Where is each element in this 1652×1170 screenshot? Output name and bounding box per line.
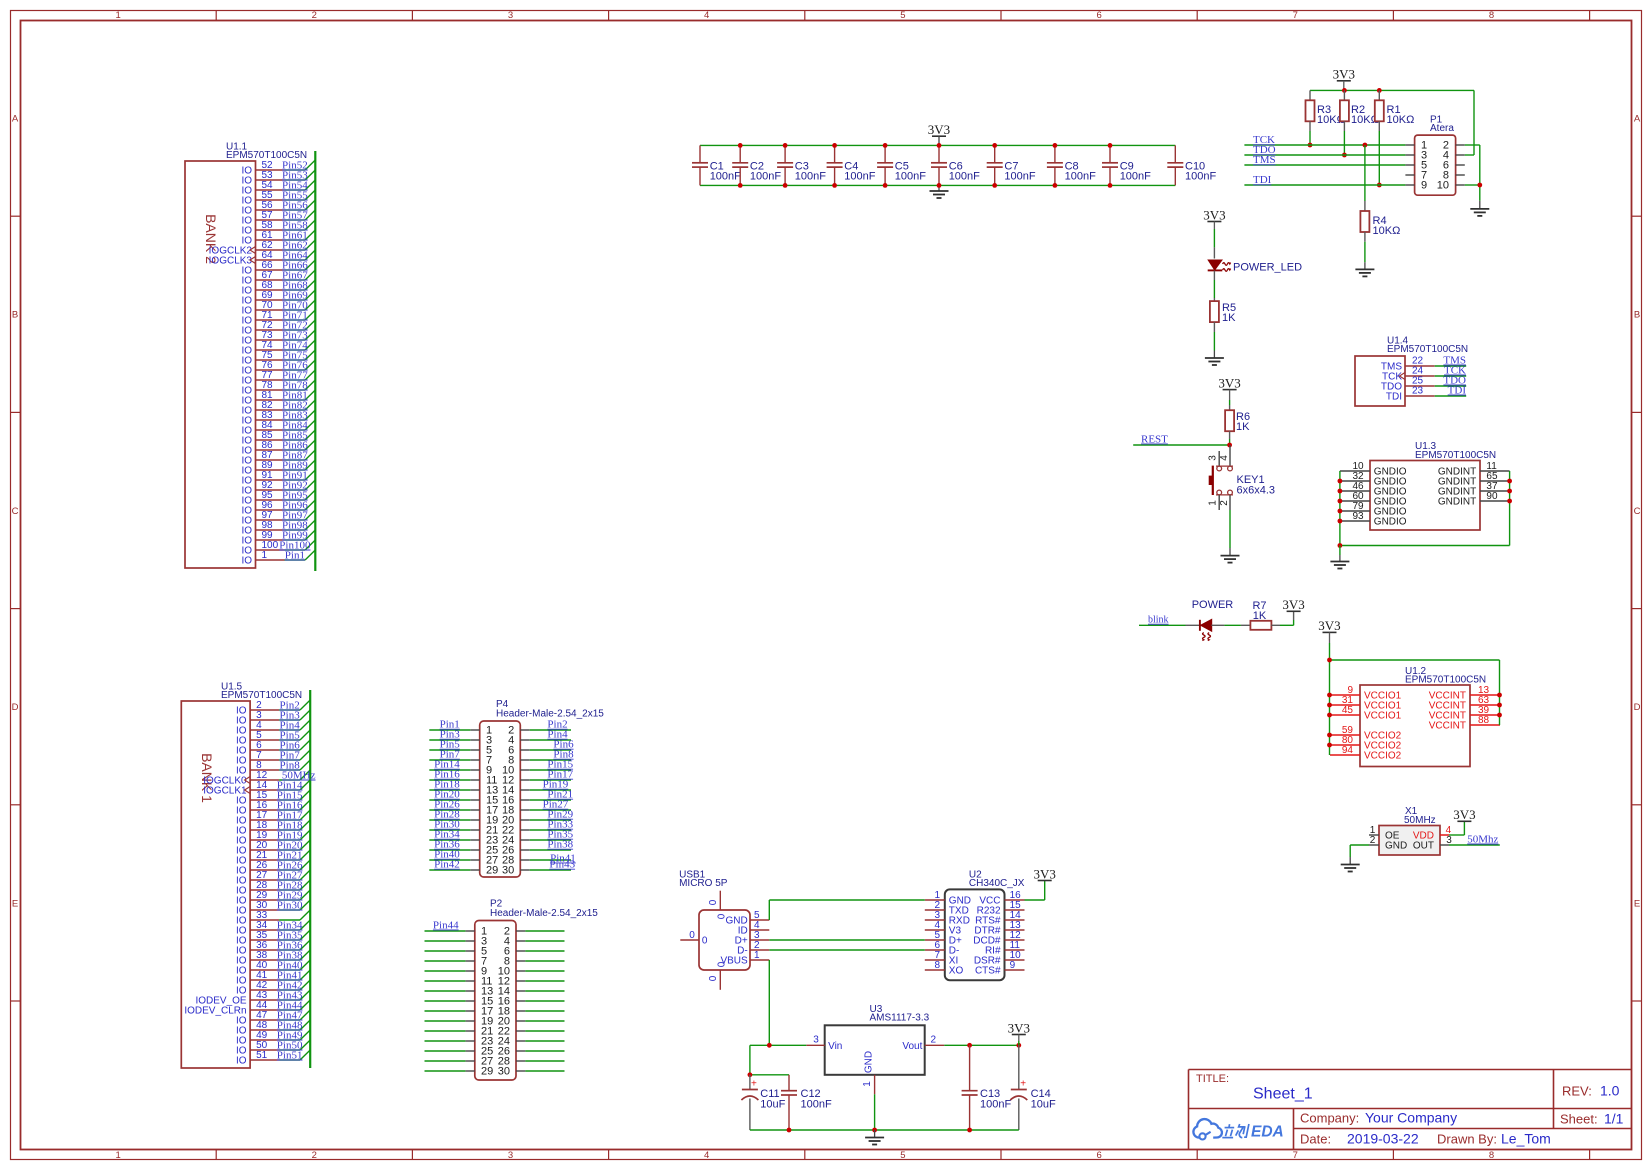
P2 pin 24 wire (525, 1040, 564, 1042)
U2 pin 3 RXD (925, 910, 970, 927)
svg-text:C: C (1634, 506, 1641, 517)
svg-text:51: 51 (256, 1050, 268, 1061)
U1.5 pin 5 (IO) wire, net Pin5 (236, 729, 310, 746)
junction U1.2 pin 13 (1497, 693, 1502, 698)
junction U1.3 pin 46 (1338, 489, 1343, 494)
svg-text:GNDINT: GNDINT (1438, 497, 1476, 508)
U2 pin 2 TXD (925, 900, 969, 917)
wire bottom gnd rail (750, 1129, 1019, 1131)
IC U3 AMS1117-3.3 (806, 1004, 944, 1094)
svg-text:100nF: 100nF (1065, 171, 1096, 183)
P2 pin 22 wire (525, 1030, 564, 1032)
U1.1 pin 87 (IO) wire, net Pin87 (241, 449, 315, 466)
U1.3 pin 37 GNDINT (1438, 481, 1510, 498)
P4 pin 7 wire, net Pin7 (429, 749, 470, 761)
svg-text:2: 2 (312, 1150, 317, 1161)
wire Vin net (750, 1045, 806, 1075)
svg-text:2: 2 (1370, 835, 1376, 846)
P4 pin 17 wire, net Pin26 (429, 799, 470, 811)
P4 pin 20 wire, net Pin29 (530, 809, 574, 821)
P2 pin 16 wire (525, 1000, 564, 1002)
svg-text:0: 0 (717, 961, 728, 967)
svg-text:CTS#: CTS# (975, 966, 1001, 977)
connector P4 Header-Male-2.54_2x15 (470, 699, 604, 877)
U1.5 pin 35 (IO) wire, net Pin35 (236, 929, 310, 946)
U1.5 pin 19 (IO) wire, net Pin19 (236, 829, 310, 846)
P4 pin 12 wire, net Pin17 (530, 769, 574, 781)
junction VBUS/Vin (767, 1043, 772, 1048)
junction C4 top (832, 143, 837, 148)
junction C3 top (783, 143, 788, 148)
wire USB1 D+ to U2 D+ (769, 939, 925, 941)
resistor R2 10KΩ (1340, 90, 1379, 155)
svg-text:1K: 1K (1253, 610, 1267, 622)
svg-text:TDI: TDI (1386, 392, 1402, 403)
U1.1 pin 55 (IO) wire, net Pin55 (241, 189, 315, 206)
resistor R3 10KΩ (1306, 90, 1345, 145)
bus for U1.1 (314, 151, 316, 571)
svg-text:0: 0 (717, 913, 728, 919)
LED POWER_LED (1208, 247, 1302, 280)
ground (P1) (1470, 201, 1489, 216)
U1.3 pin 32 GNDIO (1340, 471, 1407, 488)
svg-text:100nF: 100nF (980, 1099, 1011, 1111)
U1.5 pin 16 (IO) wire, net Pin16 (236, 799, 310, 816)
wire LED to R5 (1213, 280, 1215, 298)
title block (1189, 1070, 1632, 1150)
junction U1.3 pin 32 (1338, 479, 1343, 484)
svg-text:XO: XO (949, 966, 964, 977)
U1.2 pin 45 VCCIO1 (1330, 705, 1402, 722)
P4 pin 13 wire, net Pin18 (429, 779, 470, 791)
svg-text:3: 3 (508, 1150, 513, 1161)
svg-text:94: 94 (1342, 745, 1354, 756)
power flag 3V3 (U2) (1034, 866, 1056, 881)
capacitor C6 100nF (931, 145, 980, 185)
P2 pin 9 wire (425, 970, 466, 972)
capacitor C7 100nF (987, 145, 1036, 185)
svg-text:4: 4 (704, 10, 709, 21)
svg-text:D: D (1634, 702, 1641, 713)
P2 pin 12 wire (525, 980, 564, 982)
P2 pin 13 wire (425, 990, 466, 992)
svg-text:100nF: 100nF (750, 171, 781, 183)
svg-text:2: 2 (931, 1035, 937, 1046)
wire U1.2 3V3 top link (1330, 659, 1500, 661)
junction U1.2 pin 63 (1497, 703, 1502, 708)
U1.3 pin 46 GNDIO (1340, 481, 1407, 498)
P4 pin 5 wire, net Pin5 (429, 739, 470, 751)
U1.1 pin 91 (IO) wire, net Pin91 (241, 469, 315, 486)
U1.1 pin 92 (IO) wire, net Pin92 (241, 479, 315, 496)
pushbutton KEY1 6x6x4.3 (1208, 445, 1275, 510)
junction C8 top (1053, 143, 1058, 148)
svg-text:+: + (751, 1079, 757, 1090)
svg-text:3: 3 (508, 10, 513, 21)
U1.5 pin 12 (IOGCLK0) wire, net 50MHz (203, 769, 315, 786)
net label Pin43 (P4 pin 30) (549, 859, 575, 871)
wire/net TMS to P1 (1244, 154, 1405, 166)
svg-text:OUT: OUT (1413, 841, 1434, 852)
svg-text:Vin: Vin (828, 1041, 842, 1052)
U1.1 pin 52 (IO) wire, net Pin52 (241, 159, 315, 176)
capacitor C1 100nF (692, 145, 741, 185)
svg-text:Sheet_1: Sheet_1 (1253, 1086, 1313, 1103)
U1.1 pin 78 (IO) wire, net Pin78 (241, 379, 315, 396)
U1.1 pin 96 (IO) wire, net Pin96 (241, 499, 315, 516)
P4 pin 30 wire (530, 869, 571, 871)
P4 pin 29 wire, net Pin42 (429, 859, 470, 871)
svg-text:3V3: 3V3 (1218, 375, 1240, 390)
svg-text:AMS1117-3.3: AMS1117-3.3 (870, 1013, 930, 1024)
P4 pin 25 wire, net Pin36 (429, 839, 470, 851)
svg-text:0: 0 (702, 936, 708, 947)
svg-text:3V3: 3V3 (1008, 1020, 1030, 1035)
svg-text:E: E (12, 898, 18, 909)
U1.1 pin 74 (IO) wire, net Pin74 (241, 339, 315, 356)
svg-text:POWER_LED: POWER_LED (1233, 261, 1302, 273)
P2 pin 26 wire (525, 1050, 564, 1052)
U1.1 pin 89 (IO) wire, net Pin89 (241, 459, 315, 476)
ground (KEY1) (1221, 548, 1240, 563)
ground (R5) (1205, 351, 1224, 366)
power flag 3V3 (R7) (1282, 597, 1304, 612)
U1.4 pin 24 (TCK) wire, net TCK (1382, 364, 1466, 382)
svg-text:7: 7 (1293, 10, 1298, 21)
svg-text:100nF: 100nF (1120, 171, 1151, 183)
U1.3 pin 93 GNDIO (1340, 511, 1407, 528)
wire: GND bottom rail for C1-C10 (700, 184, 1175, 186)
wire USB1 GND to U2 GND (769, 900, 925, 920)
P2 pin 23 wire (425, 1040, 466, 1042)
wire X1 GND (1350, 845, 1369, 857)
svg-text:E: E (1634, 898, 1640, 909)
junction U1.2 pin 9 (1327, 693, 1332, 698)
U1.2 pin 39 VCCINT (1429, 705, 1500, 722)
svg-text:REV:: REV: (1562, 1084, 1592, 1099)
svg-text:Drawn By:: Drawn By: (1437, 1132, 1497, 1147)
U1.5 pin 50 (IO) wire, net Pin50 (236, 1039, 310, 1056)
U1.2 pin 31 VCCIO1 (1330, 695, 1402, 712)
U1.1 pin 76 (IO) wire, net Pin76 (241, 359, 315, 376)
svg-text:10uF: 10uF (1031, 1099, 1056, 1111)
P2 pin 15 wire (425, 1000, 466, 1002)
wire U1.3 bottom gnd link (1340, 545, 1510, 547)
U1.5 pin 6 (IO) wire, net Pin6 (236, 739, 310, 756)
U1.1 pin 73 (IO) wire, net Pin73 (241, 329, 315, 346)
capacitor C2 100nF (732, 145, 781, 185)
P2 pin 20 wire (525, 1020, 564, 1022)
svg-text:5: 5 (900, 10, 905, 21)
U1.1 pin 69 (IO) wire, net Pin69 (241, 289, 315, 306)
U1.5 pin 8 (IO) wire, net Pin8 (236, 759, 310, 776)
junction U1.2 pin 80 (1327, 743, 1332, 748)
U1.3 pin 60 GNDIO (1340, 491, 1407, 508)
svg-text:1: 1 (862, 1081, 873, 1087)
ground (X1) (1341, 857, 1360, 872)
svg-text:29: 29 (481, 1066, 493, 1078)
U1.5 pin 30 (IO) wire, net Pin30 (236, 899, 310, 916)
U1.5 pin 17 (IO) wire, net Pin17 (236, 809, 310, 826)
svg-text:8: 8 (1489, 1150, 1494, 1161)
U1.4 pin 23 (TDI) wire, net TDI (1386, 384, 1466, 402)
svg-text:100nF: 100nF (1185, 171, 1216, 183)
connector P1 Atera (JTAG header) (1405, 115, 1464, 196)
power flag 3V3 (JTAG pull-ups) (1333, 67, 1355, 91)
U1.1 pin 70 (IO) wire, net Pin70 (241, 299, 315, 316)
P2 pin 14 wire (525, 990, 564, 992)
junction R1 bottom (1377, 183, 1382, 188)
LED POWER (blink) (1186, 599, 1234, 641)
ground (U1.3) (1330, 546, 1349, 569)
U1.5 pin 40 (IO) wire, net Pin40 (236, 959, 310, 976)
svg-text:EPM570T100C5N: EPM570T100C5N (1405, 675, 1486, 686)
U2 pin 14 RTS# (975, 910, 1024, 927)
U1.5 pin 27 (IO) wire, net Pin27 (236, 869, 310, 886)
svg-text:GND: GND (1385, 841, 1407, 852)
svg-text:0: 0 (708, 975, 719, 981)
svg-text:6: 6 (1096, 10, 1101, 21)
U1.5 pin 43 (IODEV_OE) wire, net Pin43 (195, 989, 310, 1006)
U1.5 pin 26 (IO) wire, net Pin26 (236, 859, 310, 876)
wire/net TDO to P1 (1244, 144, 1405, 156)
svg-text:3: 3 (813, 1035, 819, 1046)
ground (R4) (1355, 262, 1374, 276)
svg-text:POWER: POWER (1192, 599, 1234, 611)
wire P1 pin4 from 3V3 (1465, 154, 1474, 156)
junction C7 bottom (992, 183, 997, 188)
U1.5 pin 44 (IODEV_CLRn) wire, net Pin44 (184, 999, 310, 1016)
svg-text:C: C (12, 506, 19, 517)
junction R1 top (1377, 88, 1382, 93)
svg-text:100nF: 100nF (710, 171, 741, 183)
U1.2 pin 59 VCCIO2 (1330, 725, 1402, 742)
svg-text:GNDIO: GNDIO (1374, 517, 1407, 528)
U2 pin 9 CTS# (975, 960, 1025, 977)
IC U2 CH340C_JX (945, 870, 1025, 981)
junction R2 bottom (1342, 153, 1347, 158)
junction C14/3V3 top (1016, 1043, 1021, 1048)
P4 pin 2 wire, net Pin2 (530, 719, 571, 731)
resistor R1 10KΩ (1375, 90, 1414, 185)
svg-text:100nF: 100nF (801, 1099, 832, 1111)
junction REST/KEY1 (1227, 443, 1232, 448)
junction P1 pin10 (1477, 183, 1482, 188)
svg-text:2019-03-22: 2019-03-22 (1347, 1131, 1419, 1147)
junction C6 bottom (937, 183, 942, 188)
ground (U3) (865, 1130, 884, 1145)
resistor R6 1K (1225, 400, 1250, 445)
P4 pin 4 wire, net Pin4 (530, 729, 571, 741)
junction C9 bottom (1108, 183, 1113, 188)
U1.4 pin 25 (TDO) wire, net TDO (1381, 374, 1466, 392)
U1.1 pin 99 (IO) wire, net Pin99 (241, 529, 315, 546)
svg-text:3V3: 3V3 (1034, 866, 1056, 881)
net label Pin44 (P2 pin 1) (433, 919, 459, 931)
U1.5 pin 20 (IO) wire, net Pin20 (236, 839, 310, 856)
U1.1 pin 81 (IO) wire, net Pin81 (241, 389, 315, 406)
U2 pin 15 R232 (977, 900, 1025, 917)
svg-text:Atera: Atera (1430, 123, 1454, 134)
P2 pin 28 wire (525, 1060, 564, 1062)
U1.1 pin 1 (IO) wire, net Pin1 (241, 549, 315, 566)
junction U3 GND bottom (872, 1128, 877, 1133)
junction U1.2 pin 31 (1327, 703, 1332, 708)
U1.1 pin 72 (IO) wire, net Pin72 (241, 319, 315, 336)
svg-text:5: 5 (900, 1150, 905, 1161)
U1.1 pin 83 (IO) wire, net Pin83 (241, 409, 315, 426)
svg-text:9: 9 (1010, 960, 1016, 971)
svg-text:VCCIO2: VCCIO2 (1364, 751, 1402, 762)
U1.1 pin 64 (IOGCLK3) wire, net Pin64 (209, 249, 316, 266)
P2 pin 3 wire (425, 940, 466, 942)
junction C8 bottom (1053, 183, 1058, 188)
wire U3 GND (874, 1094, 876, 1130)
svg-text:3V3: 3V3 (928, 122, 950, 137)
svg-text:4: 4 (704, 1150, 709, 1161)
svg-text:3V3: 3V3 (1453, 807, 1475, 822)
wire U2 VCC to 3V3 (1025, 881, 1045, 901)
svg-text:EDA: EDA (1251, 1123, 1284, 1140)
resistor R7 1K (1241, 600, 1280, 630)
P4 pin 19 wire, net Pin28 (429, 809, 470, 821)
U1.5 pin 49 (IO) wire, net Pin49 (236, 1029, 310, 1046)
U2 pin 6 D- (925, 940, 960, 957)
wire: 3V3 top rail for C1-C10 (700, 144, 1175, 146)
svg-text:90: 90 (1486, 491, 1498, 502)
U1.2 pin 13 VCCINT (1429, 685, 1500, 702)
junction C6 top (937, 143, 942, 148)
U1.1 pin 57 (IO) wire, net Pin57 (241, 209, 315, 226)
wire 3V3 to LED (1213, 229, 1215, 247)
IC U1.5 EPM570T100C5N (BANK 1) (181, 682, 302, 1069)
svg-text:EPM570T100C5N: EPM570T100C5N (1415, 450, 1496, 461)
wire USB1 D- to U2 D- (769, 949, 925, 951)
IC U1.3 EPM570T100C5N (GND pins) (1370, 441, 1496, 530)
P4 pin 23 wire, net Pin34 (429, 829, 470, 841)
svg-text:1: 1 (1208, 500, 1219, 506)
P4 pin 27 wire, net Pin40 (429, 849, 470, 861)
svg-text:A: A (12, 114, 19, 125)
svg-text:IO: IO (236, 1055, 247, 1066)
junction R4/TCK (1363, 143, 1368, 148)
svg-text:6: 6 (1096, 1150, 1101, 1161)
wire P1 pin2 to ground rail (1465, 145, 1480, 201)
svg-text:8: 8 (934, 960, 940, 971)
capacitor C3 100nF (777, 145, 826, 185)
P4 pin 24 wire, net Pin35 (530, 829, 574, 841)
capacitor C5 100nF (877, 145, 926, 185)
junction U1.3 pin 79 (1338, 509, 1343, 514)
svg-text:1: 1 (115, 10, 120, 21)
junction C5 bottom (883, 183, 888, 188)
svg-text:2: 2 (1219, 500, 1230, 506)
U1.4 pin 22 (TMS) wire, net TMS (1381, 354, 1466, 372)
svg-text:3: 3 (1446, 835, 1452, 846)
U1.5 pin 3 (IO) wire, net Pin3 (236, 709, 310, 726)
svg-text:VCCIO1: VCCIO1 (1364, 711, 1402, 722)
capacitor C9 100nF (1102, 145, 1151, 185)
P4 pin 28 wire (530, 859, 571, 861)
svg-text:Le_Tom: Le_Tom (1501, 1131, 1551, 1147)
svg-text:6x6x4.3: 6x6x4.3 (1237, 485, 1276, 497)
wire/net REST (1133, 433, 1229, 445)
logo LCEDA (1193, 1119, 1283, 1140)
capacitor C11 10uF (741, 1075, 785, 1130)
capacitor C8 100nF (1047, 145, 1096, 185)
U1.3 pin 65 GNDINT (1438, 471, 1510, 488)
junction C5 top (883, 143, 888, 148)
U1.5 pin 34 (IO) wire, net Pin34 (236, 919, 310, 936)
svg-text:GND: GND (864, 1051, 875, 1073)
svg-text:B: B (12, 310, 18, 321)
U1.2 pin 88 VCCINT (1429, 715, 1500, 732)
junction C11 top (748, 1072, 753, 1077)
P4 pin 8 wire, net Pin8 (530, 749, 574, 761)
bus for U1.5 (309, 690, 311, 1068)
junction C3 bottom (783, 183, 788, 188)
wire/net TCK to P1 (1244, 134, 1405, 146)
P4 pin 10 wire, net Pin15 (530, 759, 574, 771)
U2 pin 8 XO (925, 960, 964, 977)
capacitor C4 100nF (827, 145, 876, 185)
U1.5 pin 33 (IO) wire (236, 910, 310, 927)
P2 pin 25 wire (425, 1050, 466, 1052)
svg-text:3V3: 3V3 (1203, 207, 1225, 222)
resistor R5 1K (1210, 298, 1236, 332)
svg-text:1: 1 (115, 1150, 120, 1161)
P2 pin 1 wire (425, 930, 466, 932)
junction U1.2 pin 39 (1497, 713, 1502, 718)
P4 pin 11 wire, net Pin16 (429, 769, 470, 781)
U1.1 pin 75 (IO) wire, net Pin75 (241, 349, 315, 366)
svg-text:23: 23 (1412, 386, 1424, 397)
junction U1.2 pin 59 (1327, 733, 1332, 738)
svg-text:0: 0 (708, 899, 719, 905)
P2 pin 5 wire (425, 950, 466, 952)
junction C2 top (738, 143, 743, 148)
P4 pin 22 wire, net Pin33 (530, 819, 574, 831)
power flag 3V3 (U1.2) (1318, 618, 1340, 660)
junction U1.3 pin 93 (1338, 519, 1343, 524)
svg-text:3V3: 3V3 (1282, 597, 1304, 612)
svg-text:1.0: 1.0 (1600, 1083, 1620, 1099)
U1.5 pin 7 (IO) wire, net Pin7 (236, 749, 310, 766)
P4 pin 18 wire, net Pin27 (530, 799, 571, 811)
svg-text:Company:: Company: (1300, 1111, 1359, 1126)
P4 pin 14 wire, net Pin19 (530, 779, 571, 791)
junction U1.2 pin 45 (1327, 713, 1332, 718)
wire U1.2 right vcc bus (1499, 660, 1501, 725)
U1.5 pin 28 (IO) wire, net Pin28 (236, 879, 310, 896)
junction C13 top (967, 1043, 972, 1048)
ground (decoupling rail) (930, 185, 949, 198)
U1.1 pin 54 (IO) wire, net Pin54 (241, 179, 315, 196)
svg-text:Vout: Vout (902, 1041, 922, 1052)
wire/net TDI to P1 (1244, 174, 1405, 186)
junction C4 bottom (832, 183, 837, 188)
svg-text:88: 88 (1478, 715, 1490, 726)
U2 pin 4 V3 (925, 920, 962, 937)
wire: 3V3 rail to R3 R2 R1 and P1 (1310, 90, 1474, 155)
capacitor C12 100nF (781, 1075, 832, 1130)
junction U1.3 pin 37 (1507, 489, 1512, 494)
svg-text:Header-Male-2.54_2x15: Header-Male-2.54_2x15 (490, 908, 598, 919)
P4 pin 1 wire, net Pin1 (429, 719, 470, 731)
IC U1.4 EPM570T100C5N (JTAG pins) (1355, 336, 1468, 407)
junction U1.3 gnd stub (1338, 543, 1343, 548)
P2 pin 2 wire (525, 930, 564, 932)
